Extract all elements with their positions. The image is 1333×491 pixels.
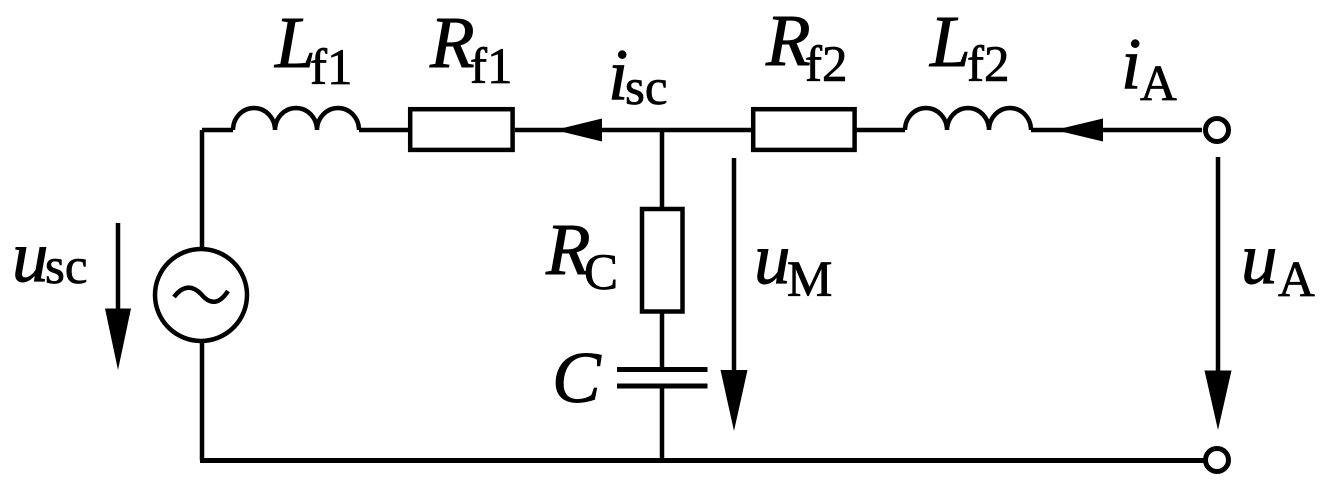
wire node branch vertical [660, 130, 665, 207]
svg-text:R: R [429, 2, 475, 83]
svg-text:L: L [929, 1, 971, 82]
arrowhead u_sc [105, 309, 131, 371]
inductor Lf2 [905, 108, 1031, 130]
wire capacitor to bottom rail [660, 386, 665, 461]
arrow line u_sc [116, 223, 121, 315]
sine symbol inside source [174, 288, 228, 302]
svg-text:f2: f2 [805, 37, 847, 93]
capacitor C bottom plate [617, 384, 708, 389]
terminal circle top right [1206, 119, 1229, 142]
arrowhead i_A current arrow [1055, 119, 1103, 142]
svg-text:f2: f2 [967, 37, 1009, 93]
capacitor C top plate [617, 367, 708, 372]
svg-text:u: u [1241, 218, 1278, 299]
inductor Lf1 [233, 108, 359, 130]
resistor Rf2 [753, 109, 854, 150]
terminal circle bottom right [1206, 449, 1229, 472]
wire left vertical upper [200, 130, 205, 248]
wire Lf2 to terminal A [1031, 128, 1202, 133]
svg-text:C: C [552, 337, 602, 418]
svg-text:A: A [1278, 252, 1315, 308]
svg-text:C: C [584, 245, 618, 301]
arrowhead u_M [721, 370, 748, 431]
resistor Rf1 [410, 109, 512, 150]
arrow line u_A [1216, 157, 1221, 375]
wire left vertical lower [200, 343, 205, 461]
arrowhead i_sc current arrow [555, 119, 602, 142]
svg-text:i: i [1121, 23, 1141, 104]
svg-text:R: R [765, 0, 811, 81]
wire RC to capacitor [660, 312, 665, 369]
arrow line u_M [732, 158, 737, 375]
resistor RC [642, 209, 683, 312]
svg-text:M: M [787, 252, 832, 308]
svg-text:f1: f1 [470, 39, 512, 95]
bottom rail wire [200, 458, 1205, 463]
svg-text:sc: sc [45, 239, 87, 295]
wire Rf2 to Lf2 [856, 128, 905, 133]
svg-text:f1: f1 [310, 40, 352, 96]
wire top-left horizontal [202, 128, 233, 133]
svg-text:A: A [1140, 56, 1177, 112]
arrowhead u_A [1205, 371, 1232, 431]
source circle U [155, 249, 247, 341]
svg-text:u: u [754, 218, 791, 299]
wire Lf1 to Rf1 [359, 128, 408, 133]
wire Rf1 to node isc [515, 128, 752, 133]
svg-text:u: u [12, 216, 49, 297]
svg-text:sc: sc [625, 60, 667, 116]
